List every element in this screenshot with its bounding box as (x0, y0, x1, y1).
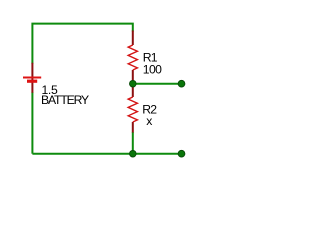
wire left lower (battery - down to bottom rail) (31, 92, 33, 154)
terminal node right of tap wire (178, 80, 185, 87)
wire top (node from battery + to R1) (32, 24, 132, 64)
svg-text:100: 100 (143, 63, 162, 77)
junction node between R1 and R2 (130, 80, 137, 87)
svg-text:x: x (146, 114, 152, 128)
svg-text:BATTERY: BATTERY (41, 93, 89, 107)
battery V1 plates (23, 77, 41, 79)
battery V1 leads (31, 63, 33, 93)
wire bottom rail (32, 153, 181, 155)
terminal node bottom right (178, 150, 185, 157)
resistor R1 leads (132, 31, 134, 84)
wire middle tap (node between R1 and R2) (133, 83, 182, 85)
junction node bottom rail (130, 150, 137, 157)
resistor R2 zigzag (128, 97, 137, 122)
resistor R2 leads (132, 84, 134, 133)
wire R2 bottom lead to bottom rail (132, 132, 134, 154)
resistor R1 zigzag (128, 45, 137, 70)
